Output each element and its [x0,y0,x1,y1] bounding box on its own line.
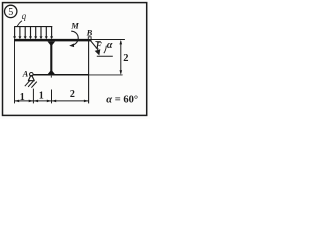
svg-text:q: q [22,11,27,21]
bottom chord from A to corner [32,74,88,76]
distributed load top line [14,26,52,28]
bottom dimension extension tick at x=33.4 [32,89,34,104]
support A triangle [28,75,35,81]
horizontal reference line for angle [97,55,113,57]
svg-text:M: M [70,21,79,31]
extension line from beam left end down [14,41,16,103]
bottom dimension extension tick at x=51.5 [51,90,53,104]
beam (top horizontal member) [14,39,92,42]
bottom gusset [48,70,55,74]
moment arrowhead [69,44,74,48]
svg-text:5: 5 [8,7,13,18]
svg-text:B: B [86,28,93,38]
right vertical member from B down [88,39,90,103]
bottom dimension line [15,100,89,102]
svg-text:α: α [107,40,113,51]
column [50,41,52,74]
top gusset [48,42,56,47]
chord extension to right dimension [89,74,123,76]
top extension line from B to right dimension [92,39,125,41]
svg-text:A: A [22,69,29,79]
bottom dimension arrowheads [15,100,89,103]
support A hatching [25,80,37,87]
variant badge circle 5 [5,5,17,18]
node B square [88,37,91,40]
leader from q [17,21,22,26]
angle arc alpha [104,46,107,54]
distributed load arrows [13,27,53,40]
border frame [3,3,147,116]
svg-text:2: 2 [70,89,75,100]
support A pin circle [30,73,34,77]
svg-text:α = 60°: α = 60° [106,95,138,106]
svg-text:1: 1 [20,92,25,103]
svg-text:1: 1 [39,91,44,102]
right dimension line 2 [120,40,123,75]
tick below column at chord [50,76,52,78]
force F arrowhead [95,49,101,55]
moment arc [71,31,78,45]
svg-text:2: 2 [123,53,128,64]
force F line of action [90,40,98,50]
